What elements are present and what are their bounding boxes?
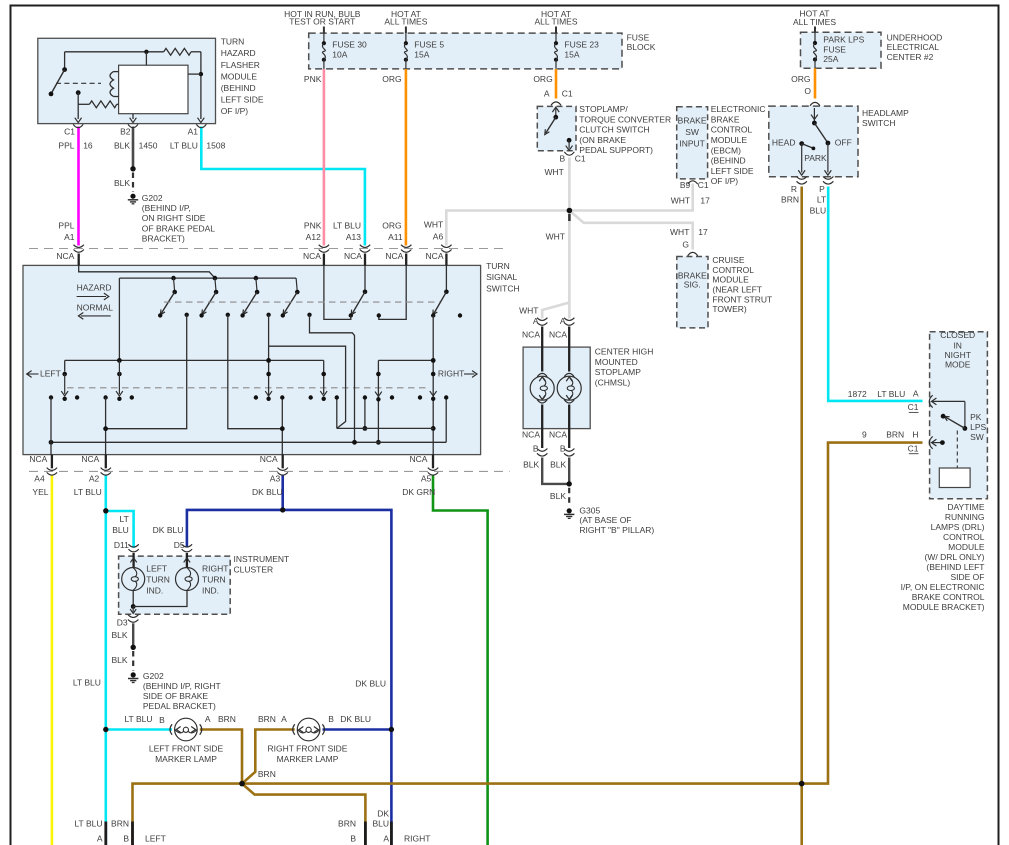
svg-text:(ON BRAKE: (ON BRAKE — [579, 135, 626, 145]
svg-text:FRONT STRUT: FRONT STRUT — [712, 294, 772, 304]
svg-text:BRN: BRN — [218, 714, 236, 724]
svg-text:MOUNTED: MOUNTED — [595, 357, 638, 367]
svg-text:15A: 15A — [564, 49, 579, 59]
svg-text:BLK: BLK — [114, 178, 130, 188]
svg-text:WHT: WHT — [546, 231, 565, 241]
svg-text:MODULE: MODULE — [712, 275, 749, 285]
svg-text:LPS: LPS — [970, 422, 986, 432]
svg-text:RIGHT "B" PILLAR): RIGHT "B" PILLAR) — [579, 525, 654, 535]
svg-text:A1: A1 — [188, 127, 199, 137]
svg-text:ON RIGHT SIDE: ON RIGHT SIDE — [142, 213, 206, 223]
svg-text:B: B — [159, 715, 165, 725]
svg-text:NCA: NCA — [522, 329, 540, 339]
svg-text:WHT: WHT — [544, 167, 563, 177]
svg-text:FUSE 5: FUSE 5 — [414, 40, 444, 50]
svg-text:I/P, ON ELECTRONIC: I/P, ON ELECTRONIC — [901, 582, 985, 592]
svg-text:CONTROL: CONTROL — [943, 532, 985, 542]
svg-text:PNK: PNK — [304, 220, 322, 230]
svg-text:C1: C1 — [698, 180, 709, 190]
svg-text:D3: D3 — [117, 618, 128, 628]
svg-text:FUSE 30: FUSE 30 — [332, 40, 367, 50]
svg-text:LEFT SIDE: LEFT SIDE — [711, 166, 754, 176]
svg-text:C1: C1 — [908, 444, 919, 454]
svg-text:A5: A5 — [421, 474, 432, 484]
svg-text:(BEHIND I/P,: (BEHIND I/P, — [142, 203, 191, 213]
svg-text:PEDAL BRACKET): PEDAL BRACKET) — [143, 701, 216, 711]
svg-text:A: A — [533, 316, 539, 326]
svg-text:P: P — [819, 184, 825, 194]
svg-text:PNK: PNK — [304, 74, 322, 84]
svg-text:NCA: NCA — [385, 251, 403, 261]
svg-text:B: B — [328, 714, 334, 724]
svg-text:ALL TIMES: ALL TIMES — [384, 17, 427, 27]
svg-text:A11: A11 — [388, 232, 403, 242]
svg-text:RIGHT: RIGHT — [438, 369, 464, 379]
svg-text:9: 9 — [862, 429, 867, 439]
svg-text:(BEHIND I/P, RIGHT: (BEHIND I/P, RIGHT — [143, 681, 221, 691]
svg-text:25A: 25A — [823, 54, 838, 64]
svg-text:LEFT: LEFT — [145, 834, 166, 844]
svg-text:OF BRAKE PEDAL: OF BRAKE PEDAL — [142, 223, 215, 233]
svg-text:NCA: NCA — [426, 251, 444, 261]
svg-text:RUNNING: RUNNING — [945, 512, 985, 522]
svg-text:NCA: NCA — [409, 454, 427, 464]
svg-text:YEL: YEL — [32, 487, 48, 497]
svg-text:PK: PK — [970, 412, 982, 422]
svg-text:1450: 1450 — [139, 140, 158, 150]
svg-text:SIDE OF BRAKE: SIDE OF BRAKE — [143, 691, 209, 701]
svg-text:NCA: NCA — [29, 454, 47, 464]
svg-text:G305: G305 — [579, 505, 600, 515]
svg-text:C1: C1 — [562, 89, 573, 99]
svg-text:D11: D11 — [114, 540, 129, 550]
svg-text:G: G — [682, 240, 689, 250]
svg-text:WHT: WHT — [670, 227, 689, 237]
svg-text:(W/ DRL ONLY): (W/ DRL ONLY) — [925, 552, 985, 562]
svg-text:BRN: BRN — [338, 819, 356, 829]
svg-text:PPL: PPL — [58, 140, 74, 150]
svg-text:B: B — [560, 443, 566, 453]
svg-text:FUSE 23: FUSE 23 — [564, 40, 599, 50]
svg-text:SIGNAL: SIGNAL — [486, 272, 517, 282]
svg-text:SIDE OF: SIDE OF — [950, 572, 984, 582]
svg-text:BLK: BLK — [114, 140, 130, 150]
svg-text:STOPLAMP/: STOPLAMP/ — [579, 104, 628, 114]
svg-text:A: A — [913, 389, 919, 399]
svg-text:ORG: ORG — [382, 74, 401, 84]
svg-text:G202: G202 — [142, 193, 163, 203]
svg-text:NCA: NCA — [549, 430, 567, 440]
svg-text:1872: 1872 — [848, 389, 867, 399]
svg-text:TEST OR START: TEST OR START — [289, 17, 355, 27]
svg-text:H: H — [912, 429, 918, 439]
svg-text:CENTER HIGH: CENTER HIGH — [595, 346, 654, 356]
svg-text:NORMAL: NORMAL — [77, 302, 114, 312]
svg-text:B: B — [350, 834, 356, 844]
svg-text:PARK LPS: PARK LPS — [823, 35, 864, 45]
svg-text:DK BLU: DK BLU — [153, 525, 184, 535]
svg-text:A6: A6 — [433, 231, 444, 241]
svg-text:DK BLU: DK BLU — [252, 487, 283, 497]
svg-text:LT BLU: LT BLU — [124, 714, 152, 724]
svg-text:IN: IN — [953, 341, 962, 351]
svg-text:MODULE: MODULE — [711, 135, 748, 145]
svg-text:RIGHT FRONT SIDE: RIGHT FRONT SIDE — [268, 744, 348, 754]
svg-text:C1: C1 — [64, 127, 75, 137]
svg-text:SW: SW — [685, 127, 699, 137]
svg-text:B: B — [533, 443, 539, 453]
svg-text:NCA: NCA — [549, 329, 567, 339]
svg-text:ORG: ORG — [791, 74, 810, 84]
svg-text:TURN: TURN — [146, 575, 170, 585]
svg-text:(EBCM): (EBCM) — [711, 145, 741, 155]
svg-text:NIGHT: NIGHT — [944, 350, 970, 360]
svg-text:MODULE: MODULE — [221, 71, 258, 81]
svg-text:LT BLU: LT BLU — [73, 678, 101, 688]
svg-text:BRN: BRN — [258, 769, 276, 779]
svg-text:PARK: PARK — [804, 153, 827, 163]
svg-text:LT BLU: LT BLU — [74, 487, 102, 497]
svg-text:10A: 10A — [332, 49, 347, 59]
svg-text:SWITCH: SWITCH — [486, 283, 520, 293]
svg-text:A12: A12 — [306, 232, 321, 242]
svg-text:NCA: NCA — [303, 251, 321, 261]
svg-text:ELECTRONIC: ELECTRONIC — [711, 104, 766, 114]
svg-text:A4: A4 — [34, 474, 45, 484]
svg-text:TOWER): TOWER) — [712, 304, 746, 314]
svg-text:HEADLAMP: HEADLAMP — [862, 108, 909, 118]
svg-text:G202: G202 — [143, 671, 164, 681]
svg-text:WHT: WHT — [671, 196, 690, 206]
svg-text:INPUT: INPUT — [679, 139, 705, 149]
svg-text:17: 17 — [700, 196, 710, 206]
svg-text:SWITCH: SWITCH — [862, 118, 896, 128]
svg-text:BLOCK: BLOCK — [627, 42, 656, 52]
svg-text:16: 16 — [83, 140, 93, 150]
svg-text:ELECTRICAL: ELECTRICAL — [887, 42, 940, 52]
svg-text:A: A — [97, 834, 103, 844]
svg-text:ALL TIMES: ALL TIMES — [793, 17, 836, 27]
svg-text:A: A — [281, 714, 287, 724]
svg-text:LT: LT — [817, 195, 826, 205]
svg-text:(BEHIND LEFT: (BEHIND LEFT — [926, 562, 984, 572]
svg-text:NCA: NCA — [81, 454, 99, 464]
svg-text:17: 17 — [698, 227, 708, 237]
svg-text:LT BLU: LT BLU — [877, 389, 905, 399]
svg-text:A: A — [544, 89, 550, 99]
svg-text:A2: A2 — [89, 474, 100, 484]
svg-text:LT BLU: LT BLU — [170, 140, 198, 150]
svg-text:LAMPS (DRL): LAMPS (DRL) — [931, 522, 985, 532]
svg-text:HAZARD: HAZARD — [221, 48, 256, 58]
svg-text:INSTRUMENT: INSTRUMENT — [234, 554, 290, 564]
svg-text:CRUISE: CRUISE — [712, 255, 744, 265]
svg-text:MODULE BRACKET): MODULE BRACKET) — [903, 602, 985, 612]
svg-text:CLUSTER: CLUSTER — [234, 564, 274, 574]
svg-text:CONTROL: CONTROL — [711, 125, 753, 135]
svg-text:BLK: BLK — [550, 491, 566, 501]
svg-text:NCA: NCA — [260, 454, 278, 464]
svg-text:TURN: TURN — [486, 261, 510, 271]
svg-text:A1: A1 — [64, 232, 75, 242]
svg-text:PEDAL SUPPORT): PEDAL SUPPORT) — [579, 145, 653, 155]
svg-text:LT: LT — [120, 514, 129, 524]
svg-text:HAZARD: HAZARD — [77, 282, 112, 292]
svg-text:B: B — [123, 834, 129, 844]
svg-text:D5: D5 — [174, 540, 185, 550]
svg-text:LEFT: LEFT — [40, 369, 61, 379]
svg-text:DK GRN: DK GRN — [402, 487, 435, 497]
svg-text:MODE: MODE — [945, 360, 971, 370]
svg-text:BRN: BRN — [781, 195, 799, 205]
svg-text:O: O — [804, 86, 811, 96]
svg-text:OF I/P): OF I/P) — [221, 106, 249, 116]
svg-text:RIGHT: RIGHT — [202, 564, 228, 574]
svg-text:A: A — [205, 714, 211, 724]
svg-text:R: R — [791, 184, 797, 194]
svg-text:SIG.: SIG. — [684, 280, 701, 290]
svg-text:BRAKE CONTROL: BRAKE CONTROL — [912, 592, 985, 602]
svg-text:DK: DK — [377, 809, 389, 819]
svg-text:BLU: BLU — [112, 525, 129, 535]
svg-text:BRN: BRN — [111, 819, 129, 829]
svg-text:1508: 1508 — [206, 140, 225, 150]
svg-text:OF I/P): OF I/P) — [711, 176, 739, 186]
svg-text:A13: A13 — [346, 232, 361, 242]
svg-text:CLUTCH SWITCH: CLUTCH SWITCH — [579, 125, 649, 135]
svg-text:DK BLU: DK BLU — [355, 679, 386, 689]
svg-text:LT BLU: LT BLU — [74, 819, 102, 829]
svg-text:MODULE: MODULE — [948, 542, 985, 552]
svg-text:NCA: NCA — [522, 430, 540, 440]
svg-text:WHT: WHT — [519, 306, 538, 316]
svg-text:B2: B2 — [120, 127, 131, 137]
svg-text:(CHMSL): (CHMSL) — [595, 378, 631, 388]
svg-text:BRAKE: BRAKE — [678, 116, 707, 126]
svg-text:LEFT SIDE: LEFT SIDE — [221, 95, 264, 105]
svg-text:OFF: OFF — [835, 138, 852, 148]
svg-text:C1: C1 — [908, 402, 919, 412]
svg-text:BLK: BLK — [523, 459, 539, 469]
svg-text:TURN: TURN — [202, 575, 226, 585]
svg-text:15A: 15A — [414, 49, 429, 59]
svg-text:ORG: ORG — [533, 74, 552, 84]
svg-text:STOPLAMP: STOPLAMP — [595, 367, 641, 377]
svg-text:FUSE: FUSE — [823, 44, 846, 54]
svg-text:MARKER LAMP: MARKER LAMP — [155, 754, 217, 764]
svg-text:NCA: NCA — [344, 251, 362, 261]
svg-text:CENTER #2: CENTER #2 — [887, 52, 934, 62]
svg-text:BLK: BLK — [550, 459, 566, 469]
svg-text:LEFT FRONT SIDE: LEFT FRONT SIDE — [149, 744, 224, 754]
svg-text:SW: SW — [970, 432, 984, 442]
svg-text:TORQUE CONVERTER: TORQUE CONVERTER — [579, 114, 671, 124]
svg-text:A: A — [560, 316, 566, 326]
svg-text:CONTROL: CONTROL — [712, 265, 754, 275]
svg-text:BLU: BLU — [810, 205, 827, 215]
svg-text:MARKER LAMP: MARKER LAMP — [277, 754, 339, 764]
svg-text:PPL: PPL — [58, 220, 74, 230]
svg-text:(NEAR LEFT: (NEAR LEFT — [712, 284, 762, 294]
svg-text:LT BLU: LT BLU — [333, 220, 361, 230]
svg-text:A3: A3 — [270, 474, 281, 484]
svg-text:DAYTIME: DAYTIME — [947, 502, 984, 512]
svg-text:HEAD: HEAD — [772, 138, 796, 148]
svg-text:BLK: BLK — [112, 630, 128, 640]
svg-text:CLOSED: CLOSED — [940, 330, 975, 340]
svg-text:(BEHIND: (BEHIND — [711, 156, 746, 166]
svg-text:B: B — [560, 153, 566, 163]
svg-text:BLU: BLU — [372, 819, 389, 829]
svg-text:TURN: TURN — [221, 37, 245, 47]
svg-text:FLASHER: FLASHER — [221, 60, 260, 70]
svg-text:(BEHIND: (BEHIND — [221, 83, 256, 93]
svg-text:BRN: BRN — [258, 714, 276, 724]
svg-text:ALL TIMES: ALL TIMES — [535, 17, 578, 27]
svg-text:IND.: IND. — [146, 586, 163, 596]
svg-text:BRACKET): BRACKET) — [142, 234, 185, 244]
svg-text:NCA: NCA — [56, 251, 74, 261]
svg-text:B9: B9 — [680, 180, 691, 190]
svg-text:BRAKE: BRAKE — [711, 114, 740, 124]
svg-text:DK BLU: DK BLU — [340, 714, 371, 724]
svg-text:ORG: ORG — [382, 220, 401, 230]
svg-text:(AT BASE OF: (AT BASE OF — [579, 515, 631, 525]
svg-text:RIGHT: RIGHT — [404, 834, 430, 844]
svg-text:A: A — [383, 834, 389, 844]
svg-text:UNDERHOOD: UNDERHOOD — [887, 32, 943, 42]
svg-text:WHT: WHT — [424, 219, 443, 229]
svg-text:IND.: IND. — [202, 586, 219, 596]
svg-text:BLK: BLK — [112, 655, 128, 665]
svg-text:LEFT: LEFT — [146, 564, 167, 574]
svg-text:BRN: BRN — [886, 429, 904, 439]
